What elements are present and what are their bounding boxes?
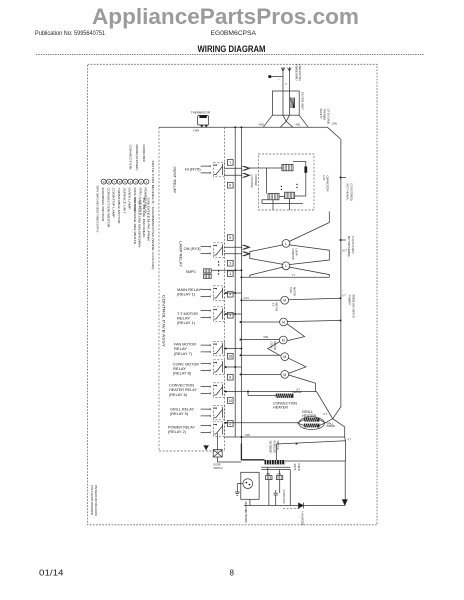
svg-text:H.V.: H.V. <box>322 176 326 181</box>
power cord line N <box>288 68 290 92</box>
hv diode <box>298 503 303 508</box>
fan motor feed wire <box>241 299 280 301</box>
svg-text:P.W.B: P.W.B <box>297 464 301 471</box>
grill heater right junction wires <box>319 419 332 426</box>
svg-text:(RELAY 2): (RELAY 2) <box>168 430 186 434</box>
bottom tco stub <box>341 239 347 241</box>
svg-text:COOKTOP: COOKTOP <box>291 249 295 260</box>
tt motor relay <box>201 311 204 318</box>
svg-text:L: L <box>285 264 287 268</box>
membrane key connector pins and signal names <box>101 179 106 184</box>
fan motor to bus wire <box>289 298 341 300</box>
pwb right drop wire <box>289 470 291 506</box>
mgt tco stub wire <box>341 177 347 179</box>
filament choke FB <box>276 476 282 480</box>
power plug prongs <box>281 67 291 71</box>
svg-text:GRILL RELAY: GRILL RELAY <box>170 407 195 411</box>
diode dashed tail <box>283 508 301 510</box>
lamp chain lower wires <box>250 267 329 277</box>
svg-text:VENT RELAY: VENT RELAY <box>173 167 177 195</box>
door switch <box>213 450 222 457</box>
svg-text:MAGNETRON: MAGNETRON <box>244 502 248 523</box>
svg-text:CONV: CONV <box>270 342 274 349</box>
svg-text:2 WH: 2 WH <box>193 129 199 132</box>
conv heater relay output wire <box>224 391 317 393</box>
filament choke FA <box>266 476 272 480</box>
top supply rail <box>159 127 341 139</box>
svg-text:M: M <box>282 320 285 324</box>
svg-text:5 BL: 5 BL <box>264 336 270 339</box>
svg-text:CONVECTION: CONVECTION <box>129 145 133 170</box>
svg-text:M: M <box>283 355 286 359</box>
bottom rail <box>244 505 345 507</box>
filter component <box>290 98 295 108</box>
interlock to rail wire <box>344 461 346 506</box>
svg-text:(RELAY 8): (RELAY 8) <box>173 372 191 376</box>
svg-text:WIRING DIAGRAM: WIRING DIAGRAM <box>198 44 266 54</box>
svg-text:EG0BM6CPSA: EG0BM6CPSA <box>211 30 257 37</box>
svg-text:RELAY: RELAY <box>177 316 191 320</box>
connector square 8 <box>227 374 233 380</box>
svg-text:M: M <box>282 338 285 342</box>
connector square 4 <box>227 291 233 297</box>
svg-text:THERMO: THERMO <box>326 425 335 428</box>
hv cap top wire <box>293 162 306 167</box>
svg-text:10: 10 <box>228 399 232 403</box>
hv section dashed box <box>258 154 314 210</box>
svg-text:M: M <box>283 299 286 303</box>
hv capacitor <box>304 166 307 172</box>
svg-text:AppliancePartsPros.com: AppliancePartsPros.com <box>92 4 359 29</box>
tt motor to bus wire <box>287 320 340 321</box>
svg-text:(RELAY 7): (RELAY 7) <box>174 352 192 356</box>
svg-text:OG:ORANGE WH:WHITE: OG:ORANGE WH:WHITE <box>133 198 137 245</box>
rail top junction dots <box>234 126 236 128</box>
svg-text:3 BN: 3 BN <box>259 124 265 127</box>
svg-text:6 T: 6 T <box>342 295 346 298</box>
convection heater element <box>276 394 294 398</box>
svg-text:BOTTOM THERMAL: BOTTOM THERMAL <box>347 236 351 257</box>
tt relay output wire <box>224 313 241 315</box>
thermistor body <box>198 115 209 125</box>
conv heater to bus diagonal <box>317 392 345 438</box>
svg-text:INTERLOCK: INTERLOCK <box>272 441 276 454</box>
pwb connector bar <box>265 460 286 464</box>
zigzag wire tt-damper <box>287 324 305 341</box>
svg-text:MGT THERMAL: MGT THERMAL <box>345 184 349 201</box>
svg-text:COOK/OFF: COOK/OFF <box>142 145 146 163</box>
hv capacitor small <box>274 490 278 498</box>
main relay <box>201 290 204 297</box>
svg-text:BL:BLUE RD:RED: BL:BLUE RD:RED <box>142 198 146 238</box>
hv transformer secondary coil <box>268 193 279 199</box>
svg-text:INTERLOCK SWITCH: INTERLOCK SWITCH <box>352 295 356 318</box>
svg-text:TURNTABLE MOTOR: TURNTABLE MOTOR <box>117 188 121 224</box>
thermistor leads <box>200 125 207 127</box>
svg-text:LAMP RELAY: LAMP RELAY <box>178 241 182 268</box>
damper motor circle <box>279 336 287 344</box>
svg-text:THERMISTOR: THERMISTOR <box>191 111 210 115</box>
connector square 5 <box>227 235 233 241</box>
lamp relay output chevrons <box>242 245 250 249</box>
svg-text:SURFACE UNIT: SURFACE UNIT <box>122 188 126 214</box>
right bus wire <box>333 139 341 419</box>
power cord line L <box>282 68 284 92</box>
svg-text:4 BL: 4 BL <box>296 124 302 127</box>
secondary interlock switch box <box>277 441 346 461</box>
lamp relay RY3 <box>201 247 204 254</box>
svg-text:HI (RY5): HI (RY5) <box>185 168 201 172</box>
svg-text:L: L <box>285 242 287 246</box>
svg-text:T.T MOTOR: T.T MOTOR <box>177 312 199 316</box>
vent relay RY5 <box>201 166 204 173</box>
svg-text:CAPACITOR: CAPACITOR <box>282 490 286 504</box>
door switch feed wire <box>217 433 219 449</box>
svg-text:H.V.TRANS: H.V.TRANS <box>250 175 254 188</box>
svg-text:YW:YELLOW BN:BROWN: YW:YELLOW BN:BROWN <box>137 198 141 248</box>
door switch bottom wire <box>218 457 242 462</box>
zigzag wire damper-conv <box>268 342 280 356</box>
conv motor feed wire <box>241 354 281 356</box>
svg-text:4 T: 4 T <box>348 439 352 442</box>
svg-text:CONV. MOTOR: CONV. MOTOR <box>173 362 200 366</box>
tt motor feed wire <box>241 321 280 323</box>
main relay output wire <box>224 292 241 294</box>
fan motor circle <box>281 296 289 304</box>
chassis arrow <box>342 500 347 506</box>
power relay output wire <box>224 436 344 438</box>
pwb bus double line <box>261 466 290 468</box>
lamp chain upper wire <box>289 212 330 242</box>
magnetron chassis ground <box>235 492 240 495</box>
svg-text:CUT-OUT 216°F: CUT-OUT 216°F <box>351 236 355 254</box>
svg-text:Publication No: 5995640751: Publication No: 5995640751 <box>35 30 106 37</box>
svg-text:8 T: 8 T <box>297 388 301 391</box>
filter skirt wires <box>263 115 308 127</box>
svg-text:CONTROL P.W.B ASSY: CONTROL P.W.B ASSY <box>161 295 165 348</box>
smps rail dot <box>234 269 236 271</box>
convection heater relay <box>201 387 204 394</box>
svg-text:MAIN RELAY: MAIN RELAY <box>177 288 202 292</box>
svg-text:8: 8 <box>229 376 231 380</box>
rail B to smps pwb thick wire <box>241 444 264 460</box>
connector square 6 <box>227 182 233 188</box>
control pwb box bottom edge <box>159 450 225 452</box>
svg-text:(RELAY 6): (RELAY 6) <box>169 393 187 397</box>
svg-text:COOKTOP LAMP: COOKTOP LAMP <box>112 188 116 218</box>
svg-text:PN:DE96-00730A/G001: PN:DE96-00730A/G001 <box>94 485 98 516</box>
svg-text:SAFETY: SAFETY <box>319 109 323 120</box>
svg-text:POWER SUPPLY: POWER SUPPLY <box>294 65 298 82</box>
lamp chain hexagon wires <box>250 245 329 265</box>
svg-text:SWITCH: SWITCH <box>276 441 280 450</box>
svg-text:(RELAY 1): (RELAY 1) <box>177 321 195 325</box>
noise filter unit box <box>272 91 299 115</box>
svg-text:CONVECTION MOTOR: CONVECTION MOTOR <box>106 188 110 228</box>
svg-text:(RELAY 9): (RELAY 9) <box>170 412 188 416</box>
choke feed wires <box>268 467 280 505</box>
svg-text:FAN: FAN <box>289 287 293 292</box>
rail junction dots <box>240 276 242 278</box>
smps transformer <box>204 269 212 273</box>
svg-text:THERMO: THERMO <box>323 109 327 121</box>
svg-text:HEATER: HEATER <box>273 406 289 410</box>
vent relay output wires <box>224 167 242 169</box>
svg-text:1 T: 1 T <box>292 274 296 277</box>
control pwb box right edge <box>224 127 226 451</box>
conv motor circle <box>281 353 289 361</box>
svg-text:M: M <box>283 373 286 377</box>
rail wire A <box>234 127 236 437</box>
grill heater left junction wires <box>297 420 304 426</box>
svg-text:16: 16 <box>228 355 232 359</box>
header rule <box>36 54 424 56</box>
relay output dots <box>225 292 227 294</box>
svg-text:HEATER RELAY: HEATER RELAY <box>169 388 198 392</box>
grill heater enclosure <box>299 417 325 430</box>
lamp relay output wires <box>224 246 242 248</box>
svg-text:(RELAY 1): (RELAY 1) <box>177 293 195 297</box>
svg-text:RELAY: RELAY <box>174 347 188 351</box>
connector square 2 <box>227 421 233 427</box>
svg-text:NOTE FOR MODELS : EG0BM6CPSA (: NOTE FOR MODELS : EG0BM6CPSA (WIRE COLOR… <box>151 161 155 270</box>
connector square 10 <box>227 398 233 404</box>
hv secondary loop wires <box>262 164 306 210</box>
magnetron tube <box>243 479 253 489</box>
svg-text:SECONDARY: SECONDARY <box>269 441 273 454</box>
svg-text:1: 1 <box>229 272 231 276</box>
connector square 9 <box>227 312 233 318</box>
oven lamp <box>282 262 290 270</box>
svg-text:MOTOR: MOTOR <box>273 342 277 351</box>
svg-text:DOOR(CLOSED): DOOR(CLOSED) <box>135 145 139 171</box>
svg-text:PRIMARY: PRIMARY <box>348 295 352 306</box>
vent relay output chevrons <box>242 166 250 170</box>
filter wire L <box>282 91 284 115</box>
svg-text:SMPS SWITCHING MODE POWER SUPP: SMPS SWITCHING MODE POWER SUPPLY <box>96 186 100 233</box>
svg-text:10 T: 10 T <box>342 250 347 253</box>
svg-text:DAMPER MOTOR: DAMPER MOTOR <box>101 188 105 222</box>
control pwb box left edge <box>158 127 160 451</box>
svg-text:(FA): (FA) <box>266 472 270 475</box>
grill heater elements <box>304 418 320 422</box>
svg-text:POWER RELAY: POWER RELAY <box>168 425 196 429</box>
svg-text:RELAY: RELAY <box>173 367 187 371</box>
svg-text:3: 3 <box>229 262 231 266</box>
svg-text:3 GY: 3 GY <box>244 297 250 300</box>
svg-text:FILTER UNIT: FILTER UNIT <box>301 92 305 110</box>
svg-text:6: 6 <box>229 184 231 188</box>
svg-text:DOOR: DOOR <box>213 462 220 466</box>
svg-text:1 BN: 1 BN <box>332 123 338 126</box>
connector square 7 <box>227 160 233 166</box>
svg-text:CAPACITOR: CAPACITOR <box>326 176 330 192</box>
tt motor circle <box>280 318 288 326</box>
svg-text:LAMP: LAMP <box>295 249 299 256</box>
filter wire N <box>288 91 290 115</box>
svg-text:PN:DE96-00299B: PN:DE96-00299B <box>90 485 94 515</box>
svg-text:CUT-OUT(OVEN): CUT-OUT(OVEN) <box>326 109 330 125</box>
svg-text:MOTOR: MOTOR <box>274 303 278 312</box>
power cord ground pin <box>268 75 271 78</box>
svg-text:SWITCH: SWITCH <box>213 466 222 470</box>
cooktop lamp <box>282 240 290 248</box>
svg-text:7: 7 <box>229 161 231 165</box>
svg-text:ON (RY3): ON (RY3) <box>184 247 201 251</box>
smps output wire <box>211 269 241 271</box>
rail wire B <box>240 127 242 451</box>
connector square 16 <box>227 353 233 359</box>
svg-text:8: 8 <box>230 569 235 578</box>
svg-text:SMPS: SMPS <box>293 464 297 471</box>
svg-text:H.V.DIODE: H.V.DIODE <box>300 512 304 526</box>
svg-text:MOTOR: MOTOR <box>292 287 296 296</box>
svg-text:CONVECTION: CONVECTION <box>169 384 195 388</box>
grill relay <box>201 409 204 416</box>
hv filament coil <box>285 192 295 198</box>
magnetron box <box>241 472 259 499</box>
svg-text:CUT-OUT(TMO1): CUT-OUT(TMO1) <box>349 184 353 201</box>
oven fan feed wire <box>241 373 281 375</box>
fan relay output wire <box>224 348 241 350</box>
svg-text:HEATER: HEATER <box>302 414 317 418</box>
grill relay output wire <box>224 422 297 424</box>
damper motor feed wire <box>241 339 280 341</box>
magnetron antenna wire <box>237 484 243 492</box>
svg-text:CORD 120V 60Hz: CORD 120V 60Hz <box>298 65 302 82</box>
svg-text:5: 5 <box>229 236 231 240</box>
magnetron box bottom wire <box>249 499 251 505</box>
svg-text:T.T: T.T <box>271 303 275 307</box>
connector square 1 <box>227 271 233 277</box>
svg-text:FORMER: FORMER <box>254 175 258 186</box>
svg-text:01/14: 01/14 <box>39 569 64 578</box>
horizontal rail y277 <box>241 276 330 278</box>
fan motor relay <box>201 345 204 352</box>
hv winding terminal dots <box>281 186 282 187</box>
conv motor relay <box>201 364 204 371</box>
svg-text:9 T: 9 T <box>324 413 328 416</box>
svg-text:GN:GREEN PK:PINK: GN:GREEN PK:PINK <box>147 198 151 242</box>
zigzag wire conv-fan2 <box>288 358 306 373</box>
diagram outer border <box>88 64 377 525</box>
power relay <box>201 426 204 433</box>
oven fan to heater wire <box>289 375 316 392</box>
svg-text:SMPS: SMPS <box>186 270 197 274</box>
svg-text:OVEN LAMP: OVEN LAMP <box>128 188 132 210</box>
hv transformer primary coil <box>282 164 293 170</box>
conv relay output wire <box>224 366 241 368</box>
conv heater feed stub <box>248 392 276 396</box>
monitor fuse mark <box>204 446 209 450</box>
svg-text:7 RD: 7 RD <box>245 434 251 437</box>
oven fan motor circle <box>281 371 289 379</box>
connector square 3 <box>227 260 233 266</box>
hv primary feed wire <box>248 167 282 169</box>
svg-text:FAN MOTOR: FAN MOTOR <box>174 342 197 346</box>
interlock jog <box>344 437 347 441</box>
